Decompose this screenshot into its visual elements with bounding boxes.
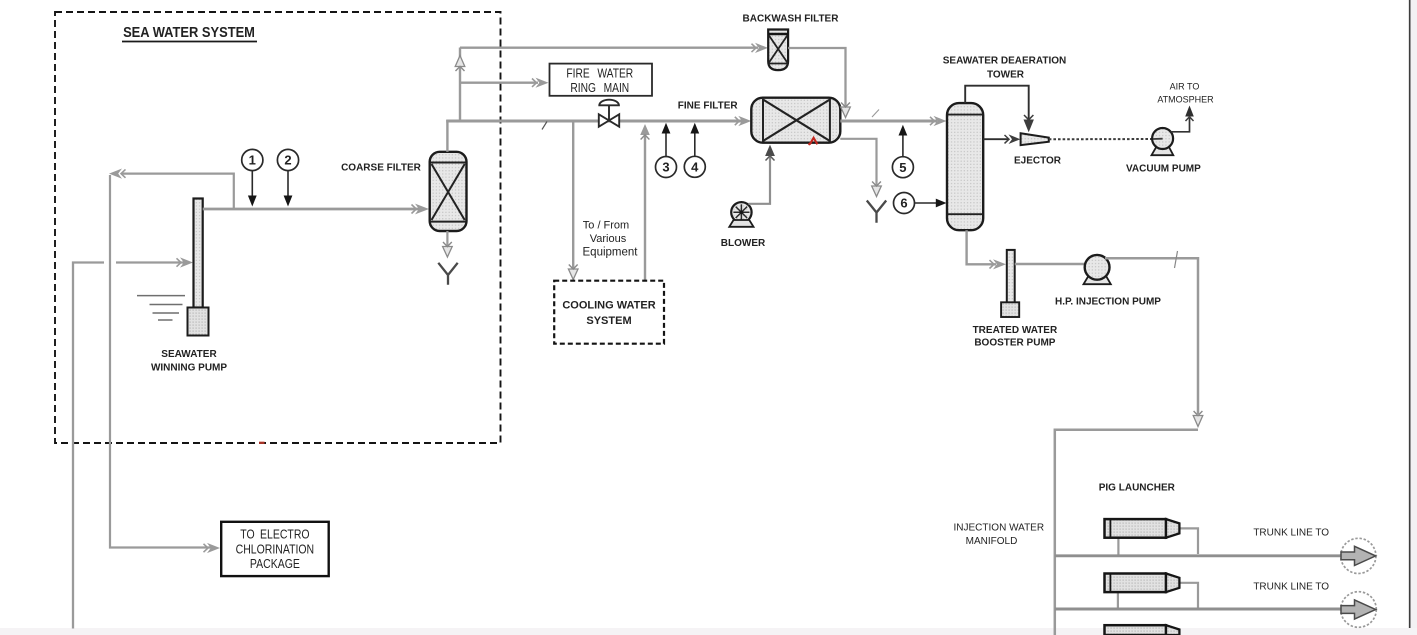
svg-text:WINNING PUMP: WINNING PUMP (151, 363, 227, 374)
seawater winning pump (188, 199, 209, 336)
vacuum pump (1152, 128, 1174, 155)
svg-text:TRUNK LINE TO: TRUNK LINE TO (1253, 582, 1329, 593)
svg-text:BACKWASH FILTER: BACKWASH FILTER (743, 14, 840, 25)
svg-text:3: 3 (662, 160, 669, 175)
svg-text:MANIFOLD: MANIFOLD (966, 536, 1018, 547)
svg-text:H.P. INJECTION PUMP: H.P. INJECTION PUMP (1055, 296, 1161, 307)
svg-text:4: 4 (691, 159, 699, 174)
svg-text:INJECTION WATER: INJECTION WATER (954, 523, 1045, 534)
label seawater winning pump (151, 349, 227, 374)
svg-text:ATMOSPHER: ATMOSPHER (1157, 94, 1214, 104)
svg-text:SEA WATER SYSTEM: SEA WATER SYSTEM (123, 24, 255, 40)
svg-text:BLOWER: BLOWER (721, 238, 766, 249)
wire: fine filter outlet to deaeration tower (840, 116, 946, 126)
svg-text:VACUUM PUMP: VACUUM PUMP (1126, 163, 1201, 174)
wire: coarse filter bottom drain (443, 231, 453, 257)
svg-text:5: 5 (899, 160, 906, 175)
label ejector (1014, 155, 1062, 166)
water surface ripples (137, 296, 185, 320)
svg-text:1: 1 (249, 153, 256, 168)
label vacuum pump (1126, 163, 1201, 174)
fine filter vessel (751, 98, 840, 143)
svg-text:6: 6 (900, 196, 907, 211)
node tag 5 (892, 125, 913, 178)
svg-text:CHLORINATION: CHLORINATION (236, 544, 314, 557)
label seawater deaeration tower (943, 56, 1067, 81)
wire: tower to ejector suction (983, 134, 1020, 144)
svg-text:AIR TO: AIR TO (1170, 82, 1200, 92)
title SEA WATER SYSTEM (122, 24, 257, 41)
wire: trunk line 2 (1055, 608, 1341, 611)
wire: cooling water return riser (640, 124, 650, 281)
page scan bottom shadow band (0, 628, 1417, 635)
sea water system dashed boundary box (55, 12, 501, 443)
page scan right border (1410, 0, 1417, 635)
node tag 1 (242, 149, 263, 206)
svg-text:COOLING WATER: COOLING WATER (562, 300, 655, 312)
label trunk line to (2) (1253, 582, 1329, 593)
line break tick (1175, 251, 1178, 268)
line break tick (542, 122, 547, 130)
wire: tower overhead to ejector (965, 86, 1034, 133)
trunk line 2 offsite arrow (1341, 592, 1377, 628)
wire: trunk line 1 (1055, 554, 1341, 557)
svg-text:FINE FILTER: FINE FILTER (678, 101, 739, 112)
fire water ring main box (550, 64, 653, 96)
pig launcher 1 (1105, 519, 1199, 554)
svg-text:TREATED WATER: TREATED WATER (973, 325, 1058, 336)
label backwash filter (743, 14, 840, 25)
label pig launcher (1099, 482, 1176, 493)
svg-text:SYSTEM: SYSTEM (586, 315, 631, 327)
wire: branch to fire water ring main (460, 78, 549, 88)
svg-text:FIRE WATER: FIRE WATER (566, 68, 633, 81)
svg-text:TO ELECTRO: TO ELECTRO (240, 529, 309, 542)
wire: cooling water supply drop (568, 121, 578, 280)
node tag 6 (894, 193, 947, 214)
svg-text:TRUNK LINE TO: TRUNK LINE TO (1253, 528, 1329, 539)
svg-text:PACKAGE: PACKAGE (250, 558, 300, 571)
pig launcher 3 (partial at page edge) (1105, 625, 1180, 635)
node tag 3 (656, 123, 677, 178)
label air to atmospher (1157, 82, 1214, 105)
wire: pump discharge pipe (203, 204, 429, 215)
svg-text:BOOSTER PUMP: BOOSTER PUMP (974, 338, 1055, 349)
wire: suction line from off-page bottom to pump (73, 257, 193, 628)
node tag 2 (277, 149, 298, 206)
node tag 4 (684, 123, 705, 178)
trunk line 1 offsite arrow (1341, 538, 1376, 573)
svg-text:COARSE FILTER: COARSE FILTER (341, 163, 422, 174)
cooling water system dashed box (554, 281, 664, 344)
label to/from various equipment (583, 220, 639, 259)
svg-text:Equipment: Equipment (583, 247, 639, 259)
to electro chlorination package box (221, 522, 329, 576)
wire: riser to backwash line (455, 48, 465, 122)
label coarse filter (341, 163, 422, 174)
label blower (721, 238, 766, 249)
treated water booster pump (1001, 250, 1019, 317)
h.p. injection pump (1084, 255, 1111, 284)
backwash filter vessel (768, 30, 788, 71)
label h.p. injection pump (1055, 296, 1161, 307)
coarse filter vessel (430, 152, 467, 231)
svg-text:SEAWATER: SEAWATER (161, 349, 217, 360)
svg-text:EJECTOR: EJECTOR (1014, 155, 1062, 166)
wire: main pipe coarse filter to fine filter (446, 116, 751, 126)
red mark on dashed border (259, 442, 265, 444)
label trunk line to (1) (1253, 528, 1329, 539)
svg-text:SEAWATER DEAERATION: SEAWATER DEAERATION (943, 56, 1067, 67)
red inspection mark (809, 138, 818, 145)
wire: fine filter drain to Y (840, 139, 881, 197)
wire: vacuum pump vent to atmosphere (1171, 106, 1194, 132)
wire: branch to electro chlorination package (109, 169, 234, 554)
blower (729, 202, 753, 227)
svg-text:Various: Various (590, 233, 627, 245)
drain Y symbol (438, 263, 457, 285)
svg-text:PIG LAUNCHER: PIG LAUNCHER (1099, 482, 1176, 493)
wire: line to backwash filter (460, 43, 768, 53)
wire: blower to fine filter (749, 145, 775, 204)
pig launcher 2 (1105, 574, 1199, 609)
seawater deaeration tower vessel (947, 103, 983, 230)
ejector (1021, 133, 1049, 145)
wire: backwash filter outlet to main pipe (788, 48, 850, 118)
svg-text:2: 2 (284, 153, 291, 168)
svg-text:TOWER: TOWER (987, 70, 1025, 81)
hand valve on fire water branch (599, 100, 619, 127)
label treated water booster pump (973, 325, 1058, 349)
svg-text:To / From: To / From (583, 220, 629, 232)
wire: coarse filter top outlet (446, 120, 448, 152)
wire: injection water manifold header (1055, 429, 1198, 635)
wire: hp pump discharge to manifold (1105, 258, 1203, 426)
label injection water manifold (954, 523, 1045, 547)
wire: ejector discharge to vacuum pump (1049, 138, 1153, 140)
wire: booster pump to hp injection pump (1015, 263, 1095, 265)
drain Y symbol (867, 201, 886, 223)
label fine filter (678, 101, 739, 112)
wire: tower bottoms to booster pump (967, 230, 1006, 269)
svg-text:RING MAIN: RING MAIN (570, 82, 629, 95)
line break tick (872, 110, 879, 118)
